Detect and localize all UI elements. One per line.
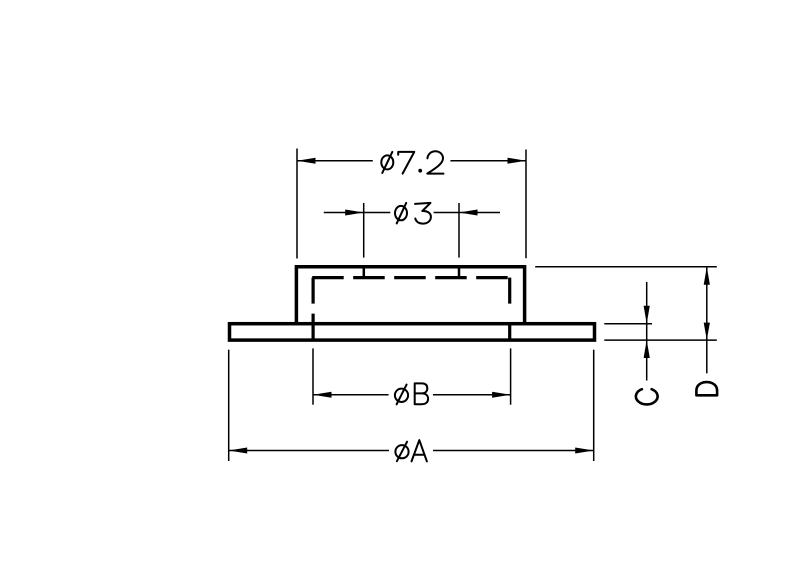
dimension øA extension line left [228, 350, 230, 461]
label D [696, 382, 717, 395]
hidden cavity top line (dashed) [312, 276, 511, 279]
dimension øB extension line right [510, 348, 512, 404]
dimension øA extension line right [593, 350, 595, 461]
dimension D arrowhead upper [704, 267, 710, 285]
hole left edge [363, 266, 366, 278]
dimension ø3 arrowhead right [459, 210, 478, 216]
dimension C arrowhead lower [644, 340, 650, 358]
dimension ø7.2 extension line right [525, 150, 527, 259]
dimension ø3 extension line right [458, 203, 460, 258]
hole right edge [458, 266, 461, 278]
dimension øA line [229, 450, 594, 452]
dimension ø3 line [324, 212, 500, 214]
flange outline [230, 324, 595, 340]
boss outline [296, 267, 524, 325]
dimension øB line [313, 394, 511, 396]
dimension D arrowhead lower [704, 323, 710, 341]
dimension ø7.2 arrowhead left [297, 158, 316, 164]
dimension øB arrowhead left [313, 392, 332, 398]
dimension C arrowhead upper [644, 306, 650, 324]
dimension D extension line bottom [604, 339, 717, 341]
hidden cavity left line (dashed) [312, 278, 315, 342]
dimension ø3 arrowhead left [345, 210, 364, 216]
label ø3 [395, 203, 431, 224]
dimension D extension line top [535, 266, 717, 268]
dimension ø7.2 line [297, 160, 526, 162]
dimension C line [646, 282, 648, 381]
label øB [395, 383, 428, 404]
dimension C extension line flange top [604, 323, 652, 325]
label ø7.2 [381, 151, 443, 173]
hidden cavity right line (dashed) [508, 278, 511, 342]
dimension ø3 extension line left [363, 203, 365, 258]
dimension øA arrowhead left [229, 448, 248, 454]
label C [636, 389, 658, 404]
label øA [395, 440, 427, 461]
dimension øB extension line left [312, 348, 314, 404]
dimension øB arrowhead right [492, 392, 511, 398]
dimension D line [706, 267, 708, 374]
dimension øA arrowhead right [575, 448, 594, 454]
dimension ø7.2 extension line left [296, 149, 298, 259]
dimension ø7.2 arrowhead right [508, 158, 527, 164]
